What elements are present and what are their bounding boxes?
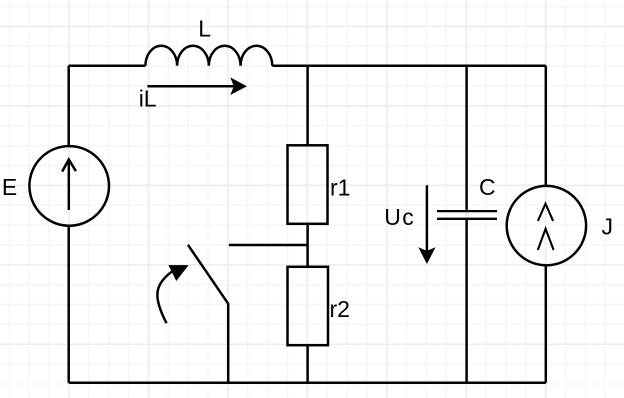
svg-text:J: J — [602, 214, 614, 240]
svg-text:r1: r1 — [330, 175, 350, 201]
svg-text:C: C — [479, 174, 496, 200]
svg-text:Uc: Uc — [384, 204, 415, 230]
svg-text:L: L — [198, 16, 211, 42]
svg-text:E: E — [2, 174, 17, 200]
svg-text:iL: iL — [139, 86, 157, 112]
svg-text:r2: r2 — [330, 296, 350, 322]
